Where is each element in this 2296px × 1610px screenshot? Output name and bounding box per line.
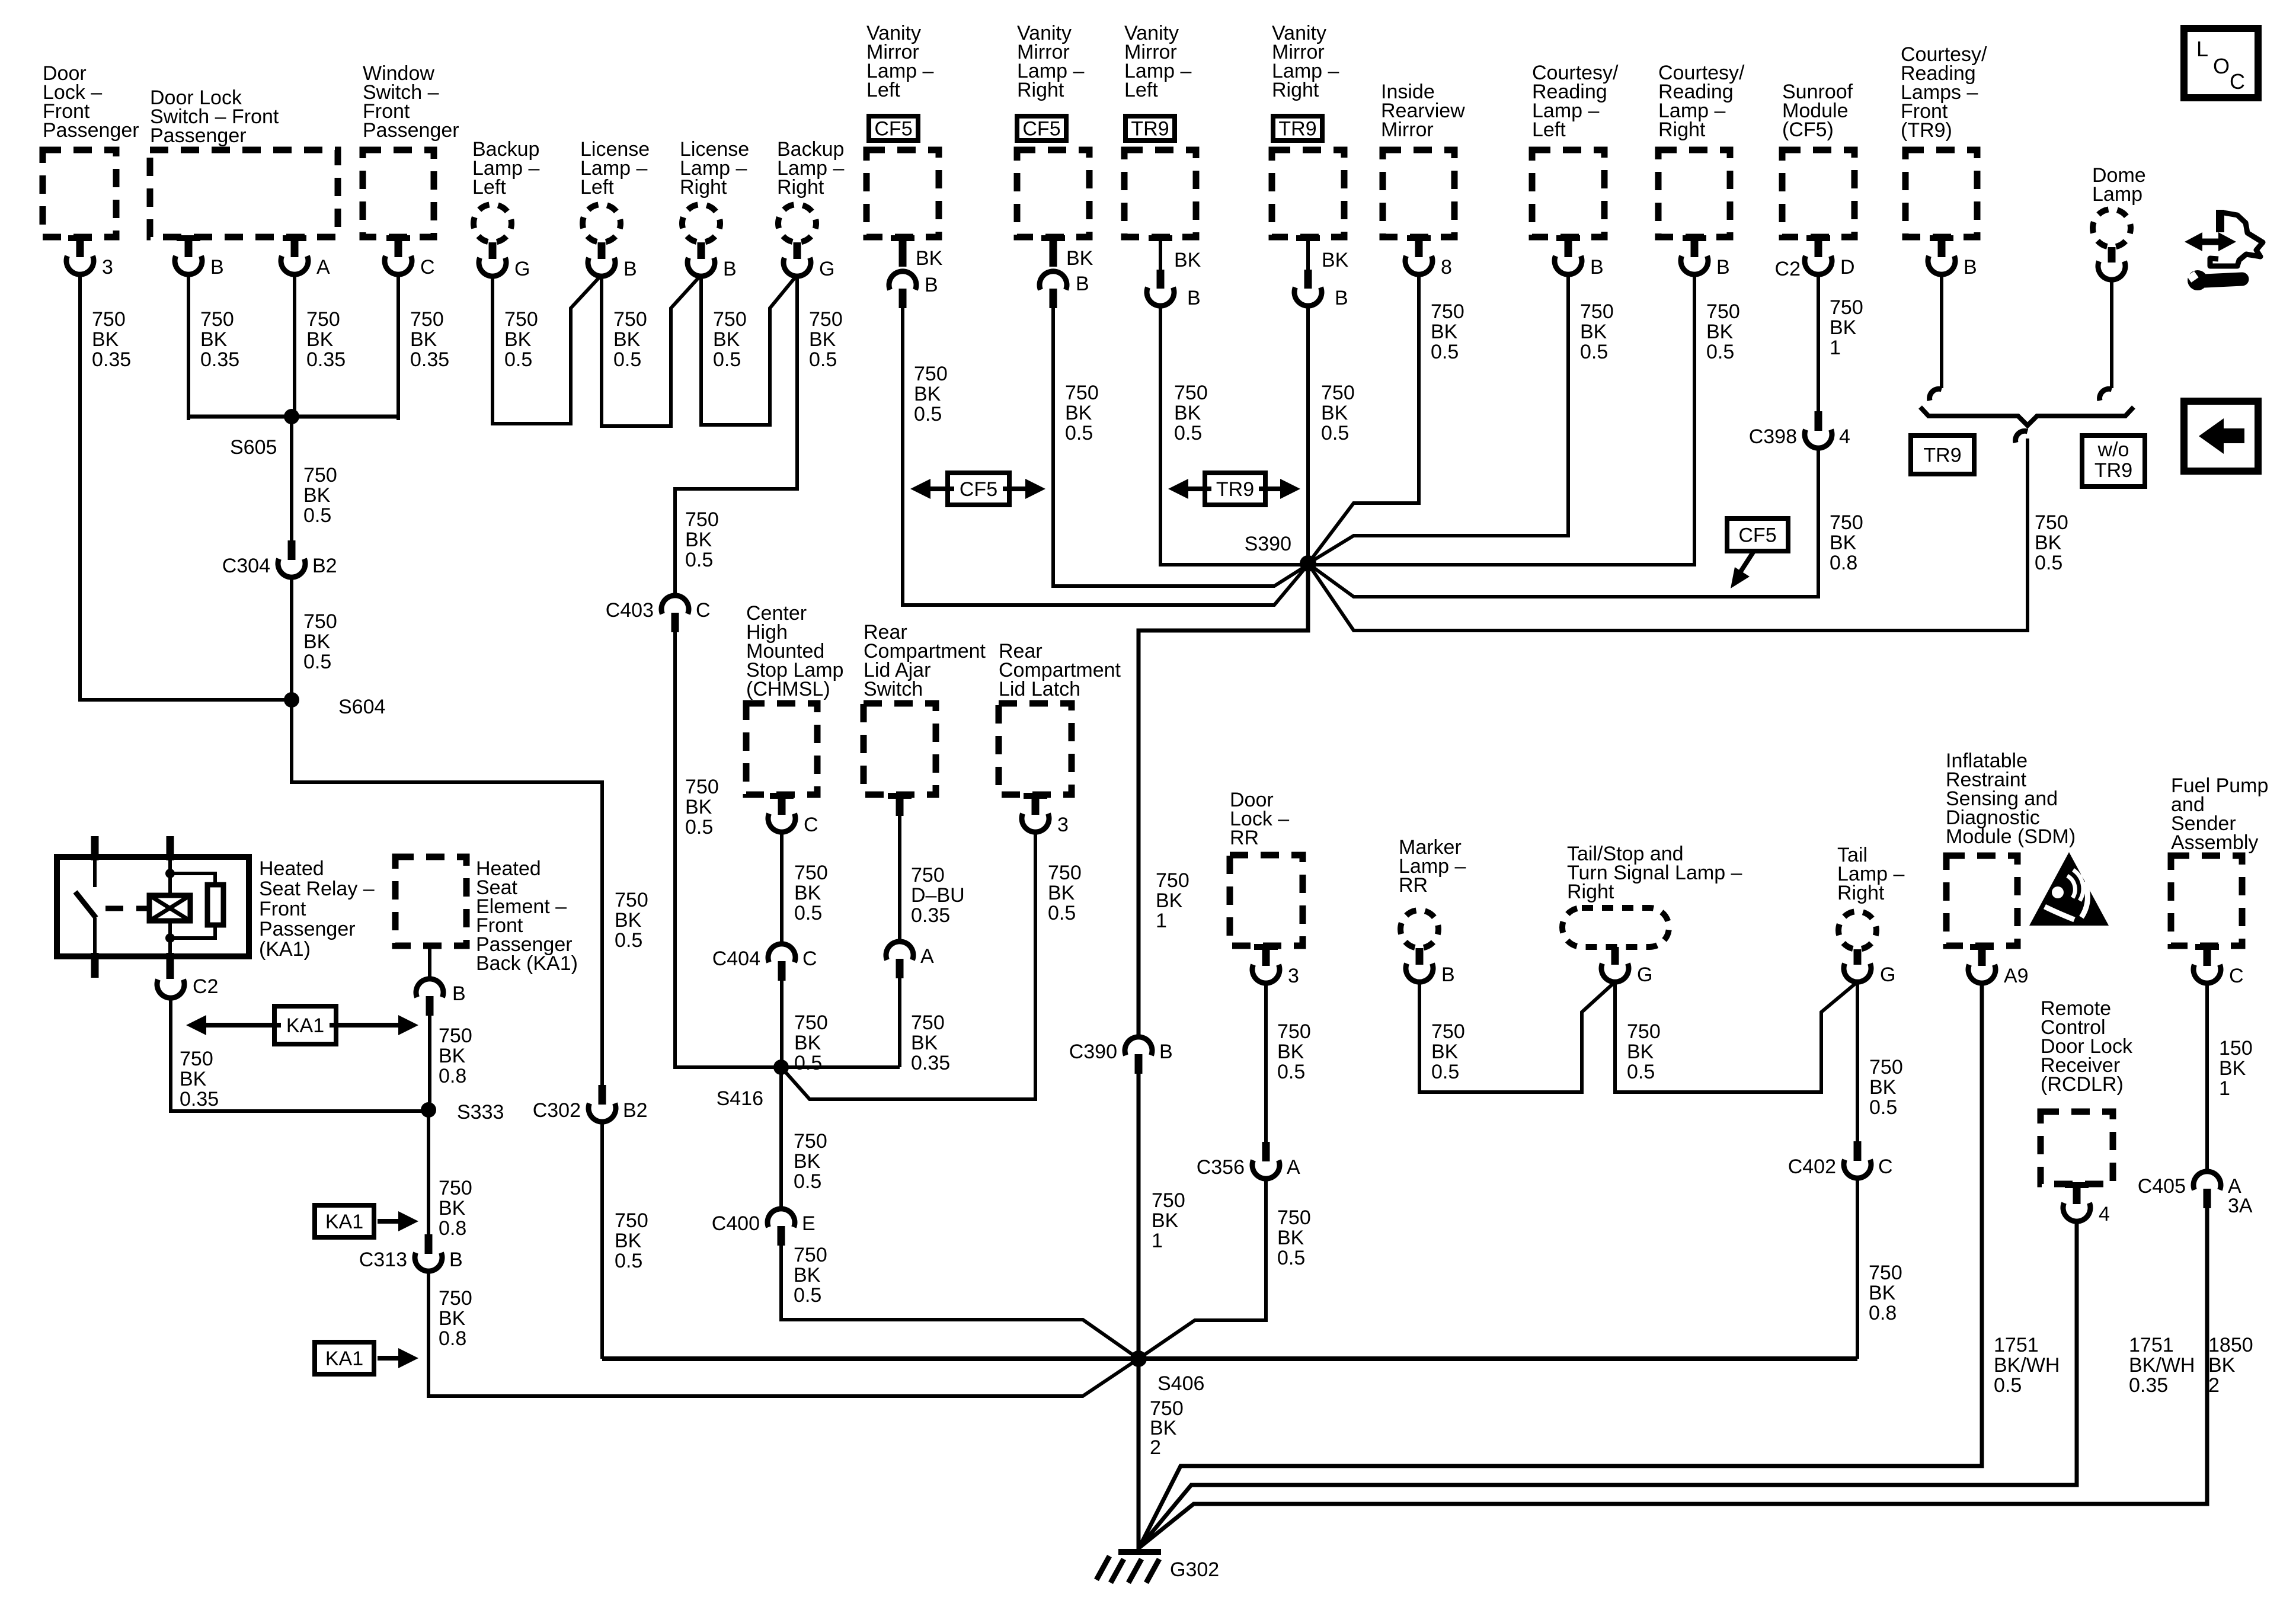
connector C2 of heated seat relay bbox=[157, 975, 218, 998]
svg-text:Left: Left bbox=[580, 176, 614, 199]
svg-text:BK: BK bbox=[713, 328, 740, 351]
wire 750 BK 0.35 from relay C2 to S333 bbox=[171, 997, 428, 1111]
svg-text:Right: Right bbox=[1272, 79, 1319, 101]
pin B of Courtesy/Reading Lamps Front bbox=[1928, 235, 1977, 279]
wire from S390 down to C390 drop bbox=[1139, 564, 1308, 1036]
svg-text:E: E bbox=[802, 1212, 816, 1235]
svg-text:0.5: 0.5 bbox=[1277, 1061, 1305, 1083]
wire 750 BK 0.5 from Backup Lamp Right to C403 bbox=[675, 276, 843, 594]
wire from Dome Lamp to option brace bbox=[2100, 279, 2112, 401]
option tag CF5 with arrows bbox=[910, 473, 1045, 505]
svg-text:0.5: 0.5 bbox=[1321, 422, 1349, 444]
connector C403 pin C bbox=[606, 596, 711, 632]
splice S333 bbox=[421, 1101, 504, 1124]
svg-text:0.5: 0.5 bbox=[1431, 1061, 1459, 1083]
svg-text:BK: BK bbox=[615, 1230, 642, 1252]
splice S406 bbox=[602, 1350, 1857, 1395]
connector C390 pin B bbox=[1069, 1037, 1173, 1074]
svg-text:750: 750 bbox=[1869, 1056, 1903, 1078]
svg-text:A: A bbox=[920, 945, 934, 968]
svg-text:1: 1 bbox=[1830, 337, 1841, 359]
svg-text:Left: Left bbox=[866, 79, 900, 101]
svg-text:750: 750 bbox=[911, 1012, 945, 1034]
svg-text:B: B bbox=[452, 982, 466, 1005]
wire 750 BK 0.5 from CHMSL pin C to C404 bbox=[782, 831, 828, 943]
svg-text:0.5: 0.5 bbox=[794, 1284, 821, 1307]
svg-text:750: 750 bbox=[1065, 382, 1099, 404]
svg-text:Passenger: Passenger bbox=[43, 119, 139, 142]
svg-text:G: G bbox=[1637, 964, 1652, 986]
svg-text:1: 1 bbox=[1152, 1230, 1163, 1252]
svg-text:750: 750 bbox=[1277, 1206, 1311, 1229]
svg-text:0.5: 0.5 bbox=[914, 403, 942, 425]
svg-text:Right: Right bbox=[680, 176, 727, 199]
wire 750 BK 0.35 from Door Lock Switch pin A to S605 bbox=[295, 274, 346, 420]
wire 750 BK 2 from S406 to G302 bbox=[1139, 1359, 1184, 1550]
lamp Backup Lamp - Right bbox=[777, 138, 844, 280]
svg-text:B: B bbox=[1335, 287, 1348, 309]
wire 750 BK 0.8 from C402 to S406 bbox=[1857, 1177, 1902, 1359]
svg-text:0.8: 0.8 bbox=[1830, 552, 1857, 574]
svg-text:(CF5): (CF5) bbox=[1782, 119, 1834, 141]
svg-text:TR9: TR9 bbox=[1278, 118, 1316, 140]
svg-text:A: A bbox=[1287, 1156, 1300, 1179]
svg-text:B: B bbox=[1187, 287, 1201, 309]
pin B of Heated Seat Element bbox=[416, 946, 466, 1016]
svg-text:750: 750 bbox=[1627, 1020, 1661, 1043]
pin B of Vanity Mirror Lamp Right CF5 bbox=[1040, 235, 1093, 308]
svg-text:KA1: KA1 bbox=[325, 1211, 363, 1233]
svg-text:C: C bbox=[696, 599, 711, 622]
svg-text:750: 750 bbox=[439, 1025, 472, 1047]
tag box w/o TR9 bbox=[2082, 436, 2145, 486]
svg-text:8: 8 bbox=[1441, 256, 1452, 279]
svg-text:G: G bbox=[819, 258, 834, 280]
splice S416 bbox=[675, 1060, 900, 1110]
svg-text:1751: 1751 bbox=[2129, 1334, 2174, 1356]
lamp License Lamp - Left bbox=[580, 138, 650, 280]
svg-text:Back (KA1): Back (KA1) bbox=[476, 952, 578, 975]
svg-text:750: 750 bbox=[613, 308, 647, 331]
svg-text:BK: BK bbox=[809, 328, 836, 351]
svg-text:0.5: 0.5 bbox=[685, 816, 713, 838]
svg-text:BK: BK bbox=[615, 909, 642, 932]
component Courtesy/Reading Lamp - Right bbox=[1658, 62, 1745, 237]
component Door Lock - Front Passenger bbox=[43, 62, 139, 237]
svg-text:BK: BK bbox=[794, 1264, 821, 1286]
component Vanity Mirror Lamp - Left (TR9) bbox=[1124, 22, 1196, 237]
svg-text:0.5: 0.5 bbox=[1869, 1096, 1897, 1119]
svg-text:750: 750 bbox=[685, 776, 719, 798]
wire 750 BK 0.5 from Vanity Mirror Lamp Left CF5 to S390 bbox=[903, 308, 1308, 605]
svg-text:0.5: 0.5 bbox=[1994, 1374, 2022, 1397]
component Rear Compartment Lid Latch bbox=[999, 640, 1121, 795]
svg-text:BK: BK bbox=[439, 1045, 466, 1067]
connector C405 pin A circuit 3A bbox=[2138, 1172, 2253, 1217]
pin B of Courtesy/Reading Lamp Right bbox=[1681, 235, 1730, 279]
svg-text:0.8: 0.8 bbox=[439, 1217, 466, 1240]
svg-text:Assembly: Assembly bbox=[2171, 831, 2258, 854]
svg-text:0.8: 0.8 bbox=[439, 1065, 466, 1087]
svg-text:B: B bbox=[1716, 256, 1730, 279]
svg-text:750: 750 bbox=[1869, 1262, 1902, 1284]
svg-text:S406: S406 bbox=[1157, 1372, 1204, 1395]
svg-text:Seat Relay –: Seat Relay – bbox=[259, 878, 375, 900]
svg-text:0.5: 0.5 bbox=[504, 348, 532, 371]
svg-text:BK: BK bbox=[794, 1150, 821, 1173]
svg-text:1751: 1751 bbox=[1994, 1334, 2039, 1356]
svg-text:G: G bbox=[1880, 964, 1895, 986]
component Vanity Mirror Lamp - Left (CF5) bbox=[866, 22, 939, 237]
svg-text:O: O bbox=[2213, 54, 2230, 78]
svg-text:G: G bbox=[514, 258, 530, 280]
lamp Tail/Stop and Turn Signal Lamp - Right bbox=[1562, 843, 1742, 986]
pin B of Courtesy/Reading Lamp Left bbox=[1555, 235, 1604, 279]
wire 750 D-BU 0.35 from Lid Ajar Switch to connector A bbox=[900, 816, 965, 940]
pin 3 of Door Lock - Front Passenger bbox=[66, 235, 113, 279]
svg-text:Left: Left bbox=[1532, 119, 1566, 141]
pin B of Door Lock Switch bbox=[175, 235, 224, 279]
wire 750 BK 0.5 from C304 to S604 bbox=[292, 577, 337, 700]
lamp Backup Lamp - Left bbox=[472, 138, 539, 280]
svg-text:G302: G302 bbox=[1170, 1558, 1219, 1581]
component Door Lock - RR bbox=[1230, 789, 1303, 946]
relay coil (X box) bbox=[149, 860, 190, 955]
svg-text:BK: BK bbox=[504, 328, 532, 351]
svg-text:750: 750 bbox=[92, 308, 126, 331]
component Window Switch - Front Passenger bbox=[363, 62, 459, 237]
option tag CF5 with pointer arrow bbox=[1727, 518, 1788, 588]
svg-text:0.35: 0.35 bbox=[911, 1052, 950, 1074]
component Heated Seat Relay - Front Passenger (KA1) box bbox=[57, 857, 375, 961]
svg-text:0.35: 0.35 bbox=[200, 348, 239, 371]
svg-text:B: B bbox=[1159, 1041, 1173, 1063]
svg-text:BK: BK bbox=[685, 796, 712, 818]
wire 750 BK 1 from Sunroof Module to C398 bbox=[1818, 274, 1863, 415]
svg-text:1: 1 bbox=[2219, 1077, 2230, 1100]
svg-text:1: 1 bbox=[1156, 910, 1167, 932]
svg-text:(TR9): (TR9) bbox=[1901, 119, 1952, 142]
svg-text:BK: BK bbox=[1321, 402, 1348, 424]
svg-text:BK: BK bbox=[794, 1032, 821, 1054]
svg-text:TR9: TR9 bbox=[1923, 444, 1961, 467]
option tag TR9 with arrows bbox=[1168, 473, 1300, 505]
svg-text:BK: BK bbox=[92, 328, 119, 351]
connector C356 pin A bbox=[1197, 1142, 1300, 1179]
svg-text:BK: BK bbox=[1830, 316, 1857, 339]
svg-text:C313: C313 bbox=[359, 1249, 407, 1271]
component Inside Rearview Mirror bbox=[1381, 81, 1465, 237]
svg-text:0.5: 0.5 bbox=[613, 348, 641, 371]
svg-text:3: 3 bbox=[1057, 814, 1069, 836]
svg-text:0.5: 0.5 bbox=[794, 1052, 822, 1074]
svg-text:CF5: CF5 bbox=[960, 478, 997, 501]
svg-text:BK: BK bbox=[1431, 321, 1458, 343]
pin C of Fuel Pump and Sender Assembly bbox=[2193, 944, 2244, 987]
component Center High Mounted Stop Lamp (CHMSL) bbox=[746, 602, 843, 795]
wire 1850 BK 2 from C405 to G302 bbox=[1139, 1204, 2253, 1548]
relay pin stub bottom-center bbox=[167, 953, 174, 979]
connector C404 pin C bbox=[712, 944, 817, 981]
svg-text:BK: BK bbox=[200, 328, 228, 351]
wire 750 BK 0.8 from S333 to C313 bbox=[428, 1110, 472, 1240]
relay suppression resistor bbox=[170, 873, 223, 938]
svg-text:w/o: w/o bbox=[2097, 438, 2129, 461]
wire 750 BK 0.5 from S605 to C304 bbox=[292, 417, 337, 540]
svg-text:C398: C398 bbox=[1749, 425, 1797, 448]
wire 750 BK 0.5 from License Lamp Right to Backup Lamp Right bbox=[701, 275, 797, 425]
svg-text:0.8: 0.8 bbox=[1869, 1302, 1897, 1324]
component Heated Seat Element - Front Passenger Back (KA1) bbox=[395, 857, 578, 975]
svg-text:750: 750 bbox=[713, 308, 747, 331]
icon LOC box bbox=[2184, 28, 2258, 98]
wire from Courtesy/Reading Lamps Front to option brace bbox=[1930, 274, 1942, 401]
relay pin stub bottom-left bbox=[91, 953, 99, 978]
pin D of Sunroof Module connector C2 bbox=[1775, 235, 1855, 280]
svg-text:BK: BK bbox=[1174, 402, 1201, 424]
relay internal junction lower bbox=[165, 933, 175, 943]
lamp Dome Lamp bbox=[2092, 164, 2146, 280]
wire 750 BK 0.5 from Backup Lamp Left to License Lamp Left bbox=[493, 275, 602, 424]
svg-text:750: 750 bbox=[1580, 300, 1614, 323]
svg-text:Passenger: Passenger bbox=[150, 124, 247, 147]
wire 750 BK 0.35 from connector A to S416 bbox=[900, 974, 950, 1074]
svg-text:S605: S605 bbox=[230, 436, 277, 459]
wire 750 BK 0.5 from Vanity Mirror Lamp Right TR9 to S390 bbox=[1308, 305, 1355, 564]
svg-text:BK: BK bbox=[1322, 249, 1349, 271]
svg-text:C: C bbox=[802, 948, 817, 970]
wire 750 BK 0.5 from Tail/Stop Lamp to Tail Lamp Right bbox=[1615, 981, 1857, 1092]
svg-text:L: L bbox=[2196, 37, 2208, 61]
wire 750 BK 0.35 from Window Switch pin C to S605 bbox=[398, 274, 449, 420]
relay actuator dashed link bbox=[105, 906, 147, 911]
connector C400 pin E bbox=[712, 1209, 816, 1246]
svg-text:BK: BK bbox=[2208, 1354, 2236, 1377]
svg-text:0.35: 0.35 bbox=[306, 348, 346, 371]
svg-text:BK: BK bbox=[685, 529, 712, 551]
svg-text:Lid Latch: Lid Latch bbox=[999, 678, 1080, 700]
svg-text:BK: BK bbox=[911, 1032, 938, 1054]
svg-text:BK: BK bbox=[2219, 1057, 2246, 1080]
svg-text:750: 750 bbox=[200, 308, 234, 331]
svg-text:B: B bbox=[1076, 273, 1089, 295]
connector C402 pin C bbox=[1788, 1141, 1893, 1178]
svg-text:750: 750 bbox=[303, 610, 337, 633]
svg-text:BK: BK bbox=[180, 1068, 207, 1090]
svg-text:750: 750 bbox=[180, 1048, 213, 1070]
icon SDM airbag warning triangle bbox=[2029, 852, 2109, 926]
pin of Rear Compartment Lid Ajar Switch bbox=[888, 793, 912, 816]
svg-text:750: 750 bbox=[306, 308, 340, 331]
wire 150 BK 1 from Fuel Pump to C405 bbox=[2207, 982, 2253, 1170]
wire 750 BK 0.5 from Marker Lamp RR to Tail/Stop Lamp bbox=[1419, 981, 1615, 1092]
svg-text:C302: C302 bbox=[533, 1099, 581, 1122]
svg-text:BK/WH: BK/WH bbox=[2129, 1354, 2195, 1377]
svg-text:D: D bbox=[1840, 256, 1855, 279]
svg-text:750: 750 bbox=[410, 308, 444, 331]
relay internal junction upper bbox=[165, 869, 175, 878]
wire 750 BK 0.5 from C302 to S406 bbox=[602, 1121, 648, 1359]
svg-text:S390: S390 bbox=[1245, 533, 1291, 555]
pin 3 of Rear Compartment Lid Latch bbox=[1022, 793, 1069, 836]
svg-text:Left: Left bbox=[472, 176, 506, 199]
svg-text:BK: BK bbox=[410, 328, 437, 351]
tag box TR9 bbox=[1911, 436, 1974, 474]
pin 4 of RCDLR bbox=[2063, 1182, 2110, 1225]
svg-text:BK: BK bbox=[1156, 889, 1183, 912]
svg-text:BK: BK bbox=[1706, 321, 1734, 343]
component Rear Compartment Lid Ajar Switch bbox=[864, 621, 986, 795]
lamp Tail Lamp - Right bbox=[1837, 844, 1904, 986]
svg-text:B2: B2 bbox=[312, 555, 337, 577]
svg-text:750: 750 bbox=[809, 308, 843, 331]
option brace (TR9 / w/o TR9 wire merge) bbox=[1920, 407, 2134, 443]
pin C of Window Switch bbox=[385, 235, 435, 279]
svg-text:RR: RR bbox=[1399, 874, 1428, 897]
svg-text:BK: BK bbox=[1869, 1076, 1897, 1099]
component Sunroof Module (CF5) bbox=[1782, 81, 1854, 237]
component Courtesy/Reading Lamps - Front (TR9) bbox=[1901, 43, 1987, 237]
svg-text:BK: BK bbox=[1152, 1209, 1179, 1232]
svg-text:CF5: CF5 bbox=[874, 118, 912, 140]
ground G302 bbox=[1096, 1552, 1219, 1583]
svg-text:B: B bbox=[723, 258, 737, 280]
svg-text:0.8: 0.8 bbox=[439, 1327, 466, 1350]
svg-text:B: B bbox=[1964, 256, 1977, 279]
connector C313 pin B bbox=[359, 1234, 463, 1271]
svg-text:0.5: 0.5 bbox=[303, 504, 331, 527]
component Door Lock Switch - Front Passenger bbox=[150, 87, 338, 237]
svg-text:3: 3 bbox=[1288, 965, 1299, 987]
svg-text:0.35: 0.35 bbox=[2129, 1374, 2168, 1397]
svg-text:KA1: KA1 bbox=[286, 1014, 324, 1037]
svg-text:B: B bbox=[449, 1249, 463, 1271]
svg-text:2: 2 bbox=[2208, 1374, 2220, 1397]
svg-text:0.5: 0.5 bbox=[1174, 422, 1202, 444]
svg-text:750: 750 bbox=[439, 1177, 472, 1199]
pin 8 of Inside Rearview Mirror bbox=[1405, 235, 1452, 279]
svg-text:0.5: 0.5 bbox=[685, 549, 713, 571]
pin B of Vanity Mirror Lamp Left CF5 bbox=[889, 235, 943, 308]
svg-text:750: 750 bbox=[1321, 382, 1355, 404]
svg-text:Right: Right bbox=[1567, 881, 1614, 903]
wire 750 BK 0.5 from C400 to S406 bbox=[781, 1241, 1139, 1359]
svg-text:A: A bbox=[316, 256, 330, 279]
icon back arrow box bbox=[2184, 401, 2258, 471]
svg-text:C: C bbox=[804, 814, 818, 836]
svg-text:0.5: 0.5 bbox=[809, 348, 837, 371]
svg-text:0.5: 0.5 bbox=[794, 902, 822, 924]
component Courtesy/Reading Lamp - Left bbox=[1532, 62, 1619, 237]
svg-text:3A: 3A bbox=[2228, 1195, 2253, 1217]
svg-text:BK: BK bbox=[439, 1197, 466, 1219]
svg-text:B: B bbox=[210, 256, 224, 279]
svg-text:BK: BK bbox=[1580, 321, 1607, 343]
svg-text:0.5: 0.5 bbox=[303, 651, 331, 673]
svg-text:750: 750 bbox=[794, 1012, 828, 1034]
svg-text:0.35: 0.35 bbox=[92, 348, 131, 371]
option tag KA1 with double arrows bbox=[186, 1006, 418, 1044]
svg-text:B: B bbox=[925, 274, 938, 296]
svg-text:750: 750 bbox=[615, 1209, 648, 1232]
svg-text:0.5: 0.5 bbox=[1431, 341, 1459, 363]
relay switch contact bbox=[75, 860, 96, 955]
svg-text:S416: S416 bbox=[717, 1087, 763, 1110]
svg-text:Right: Right bbox=[777, 176, 824, 199]
pin B of Vanity Mirror Lamp Right TR9 bbox=[1294, 235, 1349, 309]
svg-text:C: C bbox=[2229, 965, 2244, 987]
svg-text:BK: BK bbox=[613, 328, 641, 351]
svg-text:750: 750 bbox=[1277, 1020, 1311, 1043]
wire 750 BK 0.8 from C313 to S406 bbox=[428, 1270, 1139, 1396]
wire 750 BK 0.5 from Inside Rearview Mirror to S390 bbox=[1308, 274, 1464, 564]
svg-text:750: 750 bbox=[794, 1244, 827, 1266]
svg-text:TR9: TR9 bbox=[1131, 118, 1169, 140]
svg-text:B: B bbox=[1590, 256, 1604, 279]
svg-text:0.35: 0.35 bbox=[410, 348, 449, 371]
svg-text:C356: C356 bbox=[1197, 1156, 1245, 1179]
svg-text:750: 750 bbox=[1431, 1020, 1465, 1043]
svg-text:CF5: CF5 bbox=[1738, 524, 1776, 547]
svg-text:C404: C404 bbox=[712, 948, 760, 970]
svg-text:C: C bbox=[1878, 1156, 1893, 1178]
splice S604 bbox=[284, 692, 385, 718]
svg-text:750: 750 bbox=[439, 1287, 472, 1310]
component Fuel Pump and Sender Assembly bbox=[2171, 774, 2268, 946]
component Inflatable Restraint Sensing and Diagnostic Module (SDM) bbox=[1946, 750, 2076, 946]
svg-text:Front: Front bbox=[259, 898, 306, 920]
svg-text:Switch: Switch bbox=[864, 678, 923, 700]
connector C398 pin 4 bbox=[1749, 411, 1850, 448]
svg-text:C390: C390 bbox=[1069, 1041, 1117, 1063]
connector C304 pin B2 bbox=[222, 540, 337, 577]
wire 750 BK 0.5 from S604 to C302 bbox=[292, 700, 648, 1085]
svg-text:BK: BK bbox=[1066, 247, 1093, 270]
lamp Marker Lamp - RR bbox=[1399, 836, 1466, 986]
svg-text:Heated: Heated bbox=[259, 857, 324, 880]
connector C302 pin B2 bbox=[533, 1085, 648, 1122]
wire 750 BK 0.8 from Heated Seat Element to S333 bbox=[430, 1016, 472, 1110]
svg-text:1850: 1850 bbox=[2208, 1334, 2253, 1356]
wire 750 BK 0.5 from C356 to S406 bbox=[1139, 1178, 1311, 1359]
svg-text:0.35: 0.35 bbox=[911, 904, 950, 927]
svg-text:B: B bbox=[623, 258, 637, 280]
svg-text:0.5: 0.5 bbox=[1065, 422, 1093, 444]
svg-text:S333: S333 bbox=[457, 1101, 504, 1124]
wire 1751 BK/WH 0.35 from RCDLR pin 4 to G302 bbox=[1139, 1221, 2195, 1548]
svg-text:750: 750 bbox=[1174, 382, 1208, 404]
svg-text:0.5: 0.5 bbox=[1277, 1247, 1305, 1269]
svg-text:D–BU: D–BU bbox=[911, 884, 965, 907]
svg-text:BK: BK bbox=[916, 247, 943, 270]
svg-text:C304: C304 bbox=[222, 555, 270, 577]
svg-text:BK: BK bbox=[794, 882, 821, 904]
svg-text:Mirror: Mirror bbox=[1381, 119, 1434, 141]
svg-text:BK: BK bbox=[1869, 1282, 1896, 1304]
svg-text:750: 750 bbox=[1152, 1189, 1185, 1212]
svg-text:C2: C2 bbox=[1775, 258, 1801, 280]
svg-text:KA1: KA1 bbox=[325, 1347, 363, 1370]
wire 750 BK 0.35 from Door Lock pin 3 to S604 bbox=[80, 274, 292, 700]
svg-text:BK: BK bbox=[1174, 249, 1201, 271]
svg-text:0.35: 0.35 bbox=[180, 1088, 219, 1110]
svg-text:BK: BK bbox=[439, 1307, 466, 1330]
wire 750 BK 0.5 from Vanity Mirror Lamp Right CF5 to S390 bbox=[1053, 308, 1308, 586]
svg-text:BK: BK bbox=[303, 630, 331, 653]
svg-text:0.5: 0.5 bbox=[1627, 1061, 1655, 1083]
svg-text:BK: BK bbox=[1830, 532, 1857, 554]
svg-text:750: 750 bbox=[1048, 862, 1082, 884]
